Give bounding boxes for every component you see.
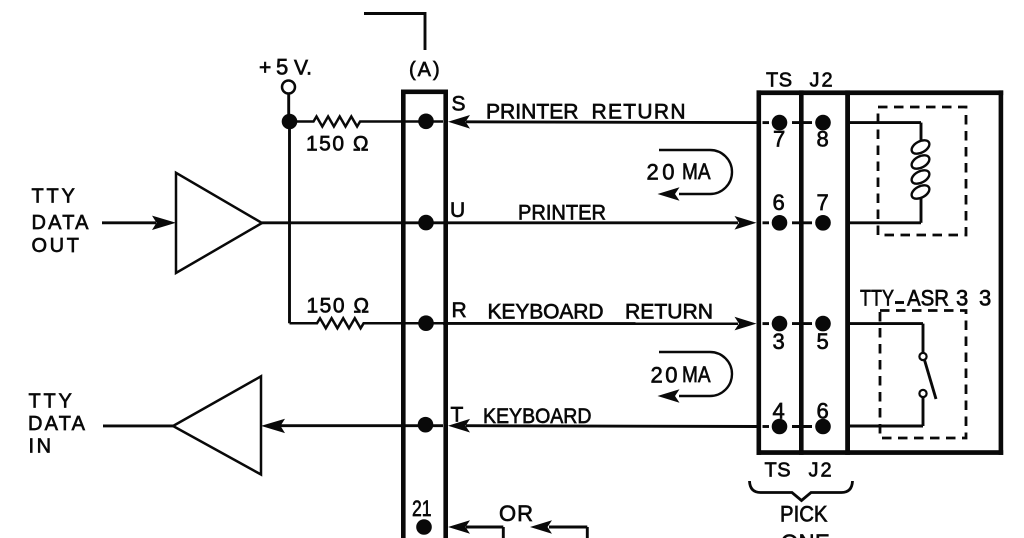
svg-text:21: 21: [412, 496, 432, 521]
svg-text:DATA: DATA: [28, 413, 87, 435]
svg-text:+: +: [259, 57, 271, 80]
svg-text:MA: MA: [682, 159, 711, 184]
svg-text:U: U: [450, 199, 465, 222]
svg-text:7: 7: [817, 190, 829, 215]
svg-text:KEYBOARD: KEYBOARD: [488, 301, 604, 324]
svg-text:6: 6: [817, 399, 829, 424]
svg-text:PRINTER: PRINTER: [486, 101, 579, 124]
svg-text:V.: V.: [294, 57, 312, 80]
svg-text:KEYBOARD: KEYBOARD: [483, 405, 592, 428]
svg-text:TTY: TTY: [860, 286, 894, 311]
svg-text:4: 4: [773, 399, 785, 424]
svg-text:T: T: [451, 404, 464, 427]
svg-text:RETURN: RETURN: [625, 301, 713, 324]
svg-text:150 Ω: 150 Ω: [307, 295, 371, 318]
svg-text:R: R: [452, 299, 467, 322]
svg-text:7: 7: [773, 127, 785, 152]
svg-text:TTY: TTY: [29, 391, 75, 413]
svg-text:RETURN: RETURN: [592, 101, 686, 124]
svg-text:IN: IN: [29, 436, 54, 458]
svg-text:3: 3: [979, 286, 991, 311]
svg-text:S: S: [452, 93, 466, 116]
svg-text:TS: TS: [765, 460, 792, 482]
svg-text:8: 8: [817, 127, 829, 152]
svg-text:(A): (A): [409, 59, 442, 81]
svg-text:PRINTER: PRINTER: [518, 202, 606, 225]
svg-text:3: 3: [773, 329, 785, 354]
svg-text:J2: J2: [810, 70, 835, 92]
svg-text:J2: J2: [809, 460, 834, 482]
svg-text:PICK: PICK: [780, 502, 828, 527]
svg-text:OUT: OUT: [32, 235, 82, 257]
svg-text:ONE: ONE: [781, 530, 830, 538]
svg-text:5: 5: [817, 329, 829, 354]
svg-text:TTY: TTY: [32, 186, 78, 208]
svg-text:6: 6: [773, 190, 785, 215]
svg-text:5: 5: [276, 55, 288, 80]
svg-text:DATA: DATA: [32, 212, 91, 234]
svg-text:ASR: ASR: [907, 286, 949, 311]
svg-text:MA: MA: [682, 362, 711, 387]
svg-text:TS: TS: [766, 70, 793, 92]
svg-text:OR: OR: [499, 501, 534, 526]
svg-text:150 Ω: 150 Ω: [306, 133, 370, 156]
svg-text:3: 3: [956, 286, 968, 311]
